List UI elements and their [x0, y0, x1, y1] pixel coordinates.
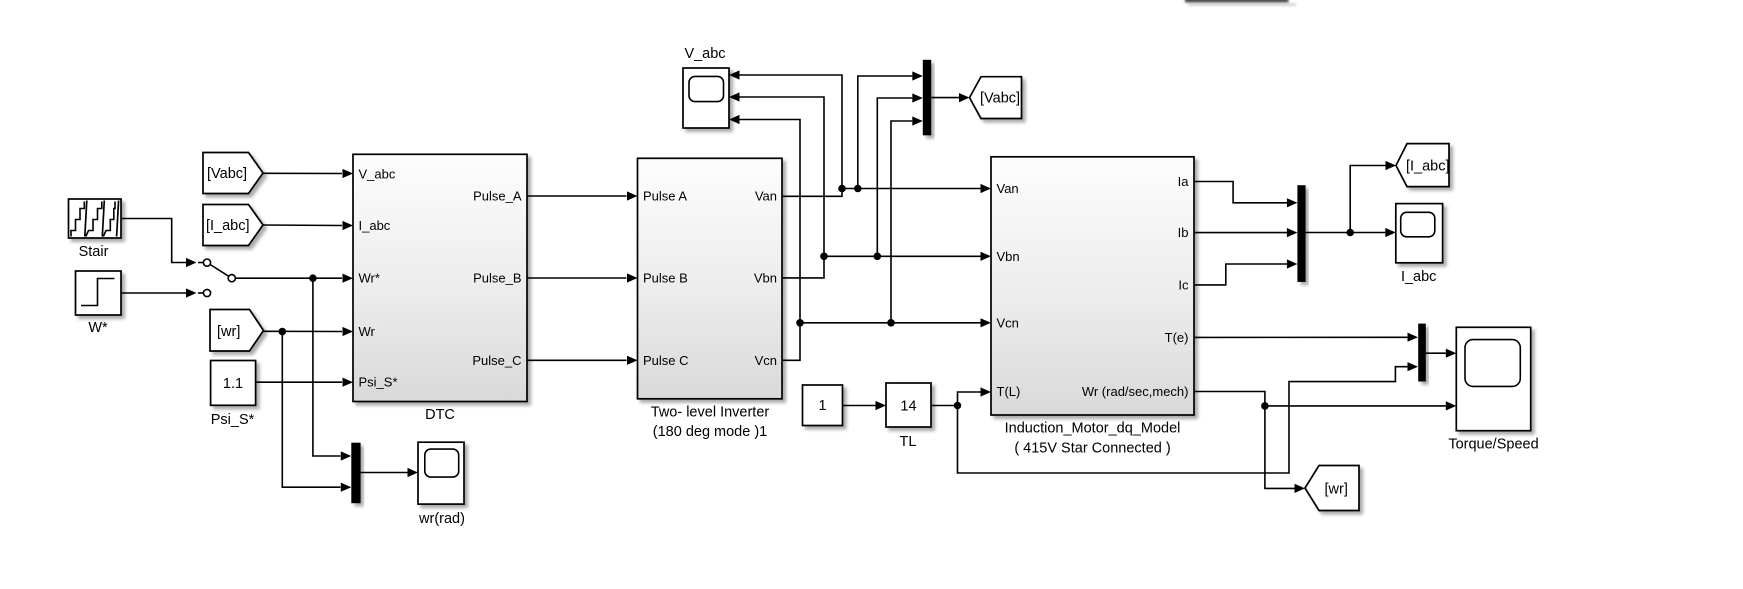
wire Vcn branch to mux Vabc input 3: [891, 116, 923, 322]
junction Vbn scope branch: [820, 252, 828, 260]
wire [wr] to DTC Wr: [264, 327, 354, 336]
mux Torque/Speed: [1418, 324, 1426, 382]
svg-text:Vcn: Vcn: [997, 315, 1019, 330]
mux wr(rad): [351, 443, 360, 504]
wire Ib to mux I_abc input 2: [1194, 228, 1297, 237]
svg-text:V_abc: V_abc: [359, 167, 396, 182]
subsystem block Two-level Inverter: [638, 158, 783, 398]
svg-text:Pulse_B: Pulse_B: [473, 271, 521, 286]
svg-text:Vbn: Vbn: [997, 249, 1020, 264]
source block W* (step): [76, 271, 122, 315]
wire Wr branch to mux wr(rad) input 2: [282, 332, 351, 492]
svg-text:Pulse_C: Pulse_C: [472, 353, 521, 368]
svg-text:I_abc: I_abc: [359, 218, 391, 233]
svg-text:Vbn: Vbn: [754, 270, 777, 285]
svg-text:Pulse_A: Pulse_A: [473, 189, 522, 204]
scope I_abc: [1396, 204, 1443, 263]
wire Vcn branch to scope V_abc input 3: [729, 115, 800, 323]
junction Wr right branch: [1261, 402, 1269, 410]
svg-text:Two- level Inverter: Two- level Inverter: [651, 405, 770, 421]
block 14 (TL): [886, 383, 931, 427]
svg-text:Wr*: Wr*: [359, 271, 380, 286]
junction Wr branch: [279, 328, 287, 336]
wire Pulse_C: [527, 356, 638, 365]
svg-text:Pulse B: Pulse B: [643, 271, 688, 286]
svg-text:Induction_Motor_dq_Model: Induction_Motor_dq_Model: [1005, 421, 1181, 437]
source block Stair: [69, 199, 122, 238]
svg-text:V_abc: V_abc: [684, 46, 725, 62]
svg-text:1.1: 1.1: [223, 376, 243, 392]
wire Wr* branch to mux wr(rad) input 1: [313, 278, 351, 460]
junction Vbn mux branch: [874, 252, 882, 260]
wire Wr output: [1194, 392, 1456, 411]
wire mux wr(rad) to scope wr(rad): [361, 468, 418, 477]
svg-text:[wr]: [wr]: [1325, 482, 1348, 498]
junction I_abc branch: [1346, 229, 1354, 237]
from tag [I_abc]: [203, 205, 263, 246]
svg-text:Wr (rad/sec,mech): Wr (rad/sec,mech): [1082, 384, 1189, 399]
wire Stair to switch input 1: [122, 219, 204, 268]
svg-text:14: 14: [900, 399, 916, 415]
svg-text:T(e): T(e): [1165, 330, 1189, 345]
svg-text:I_abc: I_abc: [1401, 269, 1436, 285]
junction Van scope branch: [838, 185, 846, 193]
svg-text:W*: W*: [88, 320, 108, 336]
svg-text:Ib: Ib: [1178, 225, 1189, 240]
goto tag [wr]: [1305, 466, 1359, 511]
junction Wr* branch: [309, 274, 317, 282]
wire Van to motor: [782, 184, 991, 196]
svg-text:Vcn: Vcn: [755, 353, 777, 368]
wire Van branch to mux Vabc input 1: [858, 71, 923, 188]
wire mux Vabc to goto [Vabc]: [931, 93, 969, 102]
constant 1: [803, 385, 843, 426]
svg-text:[wr]: [wr]: [217, 324, 240, 340]
wire W* to switch input 2: [122, 288, 204, 297]
from tag [wr]: [210, 310, 264, 352]
wire Vbn branch to mux Vabc input 2: [877, 93, 923, 256]
svg-text:[I_abc]: [I_abc]: [1406, 159, 1450, 175]
svg-text:TL: TL: [900, 434, 917, 450]
subsystem block DTC: [353, 154, 527, 401]
manual switch: [203, 259, 235, 297]
goto tag [I_abc]: [1396, 144, 1450, 187]
wire Pulse_B: [527, 273, 638, 282]
wire Ia to mux I_abc input 1: [1194, 182, 1297, 208]
svg-text:Van: Van: [755, 189, 777, 204]
mux Vabc: [923, 60, 931, 136]
wire [Vabc] to DTC V_abc: [263, 169, 353, 178]
junction Vcn mux branch: [887, 319, 895, 327]
wire T(e) to mux Torque input 1: [1194, 333, 1418, 342]
wire I_abc branch to goto [I_abc]: [1350, 161, 1396, 233]
svg-text:Pulse A: Pulse A: [643, 189, 687, 204]
svg-text:T(L): T(L): [997, 384, 1021, 399]
wire constant 1 to block 14: [843, 401, 887, 410]
junction TL branch: [954, 402, 962, 410]
scope V_abc (flipped): [683, 68, 729, 128]
wire Ic to mux I_abc input 3: [1194, 259, 1297, 285]
svg-text:Wr: Wr: [359, 324, 376, 339]
wire Pulse_A: [527, 191, 638, 200]
wire Vbn branch to scope V_abc input 2: [729, 92, 824, 256]
wire mux I_abc to scope I_abc: [1306, 228, 1396, 237]
scope Torque/Speed: [1456, 327, 1530, 430]
svg-text:Van: Van: [997, 181, 1019, 196]
wire TL branch to mux Torque input 2: [958, 362, 1419, 473]
svg-text:Psi_S*: Psi_S*: [211, 412, 255, 428]
svg-text:1: 1: [818, 398, 826, 414]
svg-text:Ic: Ic: [1178, 277, 1189, 292]
svg-text:[Vabc]: [Vabc]: [980, 91, 1020, 107]
svg-text:( 415V Star Connected ): ( 415V Star Connected ): [1014, 440, 1170, 456]
svg-text:(180 deg mode )1: (180 deg mode )1: [653, 424, 767, 440]
svg-text:[Vabc]: [Vabc]: [207, 166, 247, 182]
scope wr(rad): [418, 442, 464, 504]
wire [I_abc] to DTC I_abc: [263, 221, 353, 230]
svg-text:Psi_S*: Psi_S*: [359, 375, 398, 390]
svg-text:Stair: Stair: [79, 244, 109, 260]
junction Van mux branch: [854, 185, 862, 193]
svg-text:Torque/Speed: Torque/Speed: [1448, 437, 1538, 453]
wire Van branch to scope V_abc input 1: [729, 70, 842, 188]
wire 1.1 to DTC Psi_S*: [256, 378, 353, 387]
mux I_abc: [1297, 185, 1305, 282]
constant 1.1 (Psi_S*): [211, 361, 256, 406]
svg-text:wr(rad): wr(rad): [418, 511, 465, 527]
partial block edge at top: [1185, 0, 1296, 6]
subsystem block Induction Motor: [991, 157, 1194, 415]
svg-text:DTC: DTC: [425, 407, 455, 423]
goto tag [Vabc]: [970, 77, 1022, 119]
wire mux Torque to scope input 1: [1426, 349, 1457, 358]
svg-text:Pulse C: Pulse C: [643, 353, 689, 368]
svg-text:Ia: Ia: [1178, 174, 1190, 189]
wire Wr branch to goto [wr]: [1265, 406, 1305, 493]
wire Vbn to motor: [782, 252, 991, 278]
svg-text:[I_abc]: [I_abc]: [206, 218, 250, 234]
wire TL to motor T(L): [931, 387, 991, 405]
wire switch output to DTC Wr*: [236, 274, 354, 283]
from tag [Vabc]: [203, 153, 263, 194]
junction Vcn scope branch: [796, 319, 804, 327]
wire Vcn to motor: [782, 318, 991, 360]
